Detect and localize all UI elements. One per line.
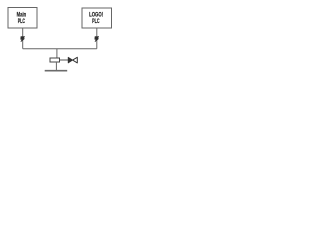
svg-text:PLC: PLC: [92, 18, 100, 25]
wire left drop: [22, 28, 24, 49]
node right link bolt: [95, 37, 99, 42]
node left link bolt: [21, 37, 25, 42]
pipe bottom bar: [45, 70, 67, 72]
coil solenoid box: [50, 58, 60, 62]
wire right drop: [96, 28, 98, 49]
svg-text:PLC: PLC: [18, 18, 26, 25]
wire T-drop to valve coil: [56, 49, 58, 58]
wire coil down: [55, 62, 57, 71]
box LOGO! PLC: [82, 8, 112, 28]
wire bus: [23, 48, 97, 50]
wire coil to valve: [60, 59, 69, 61]
box Main PLC: [8, 8, 37, 29]
valve bowtie: [68, 57, 77, 63]
